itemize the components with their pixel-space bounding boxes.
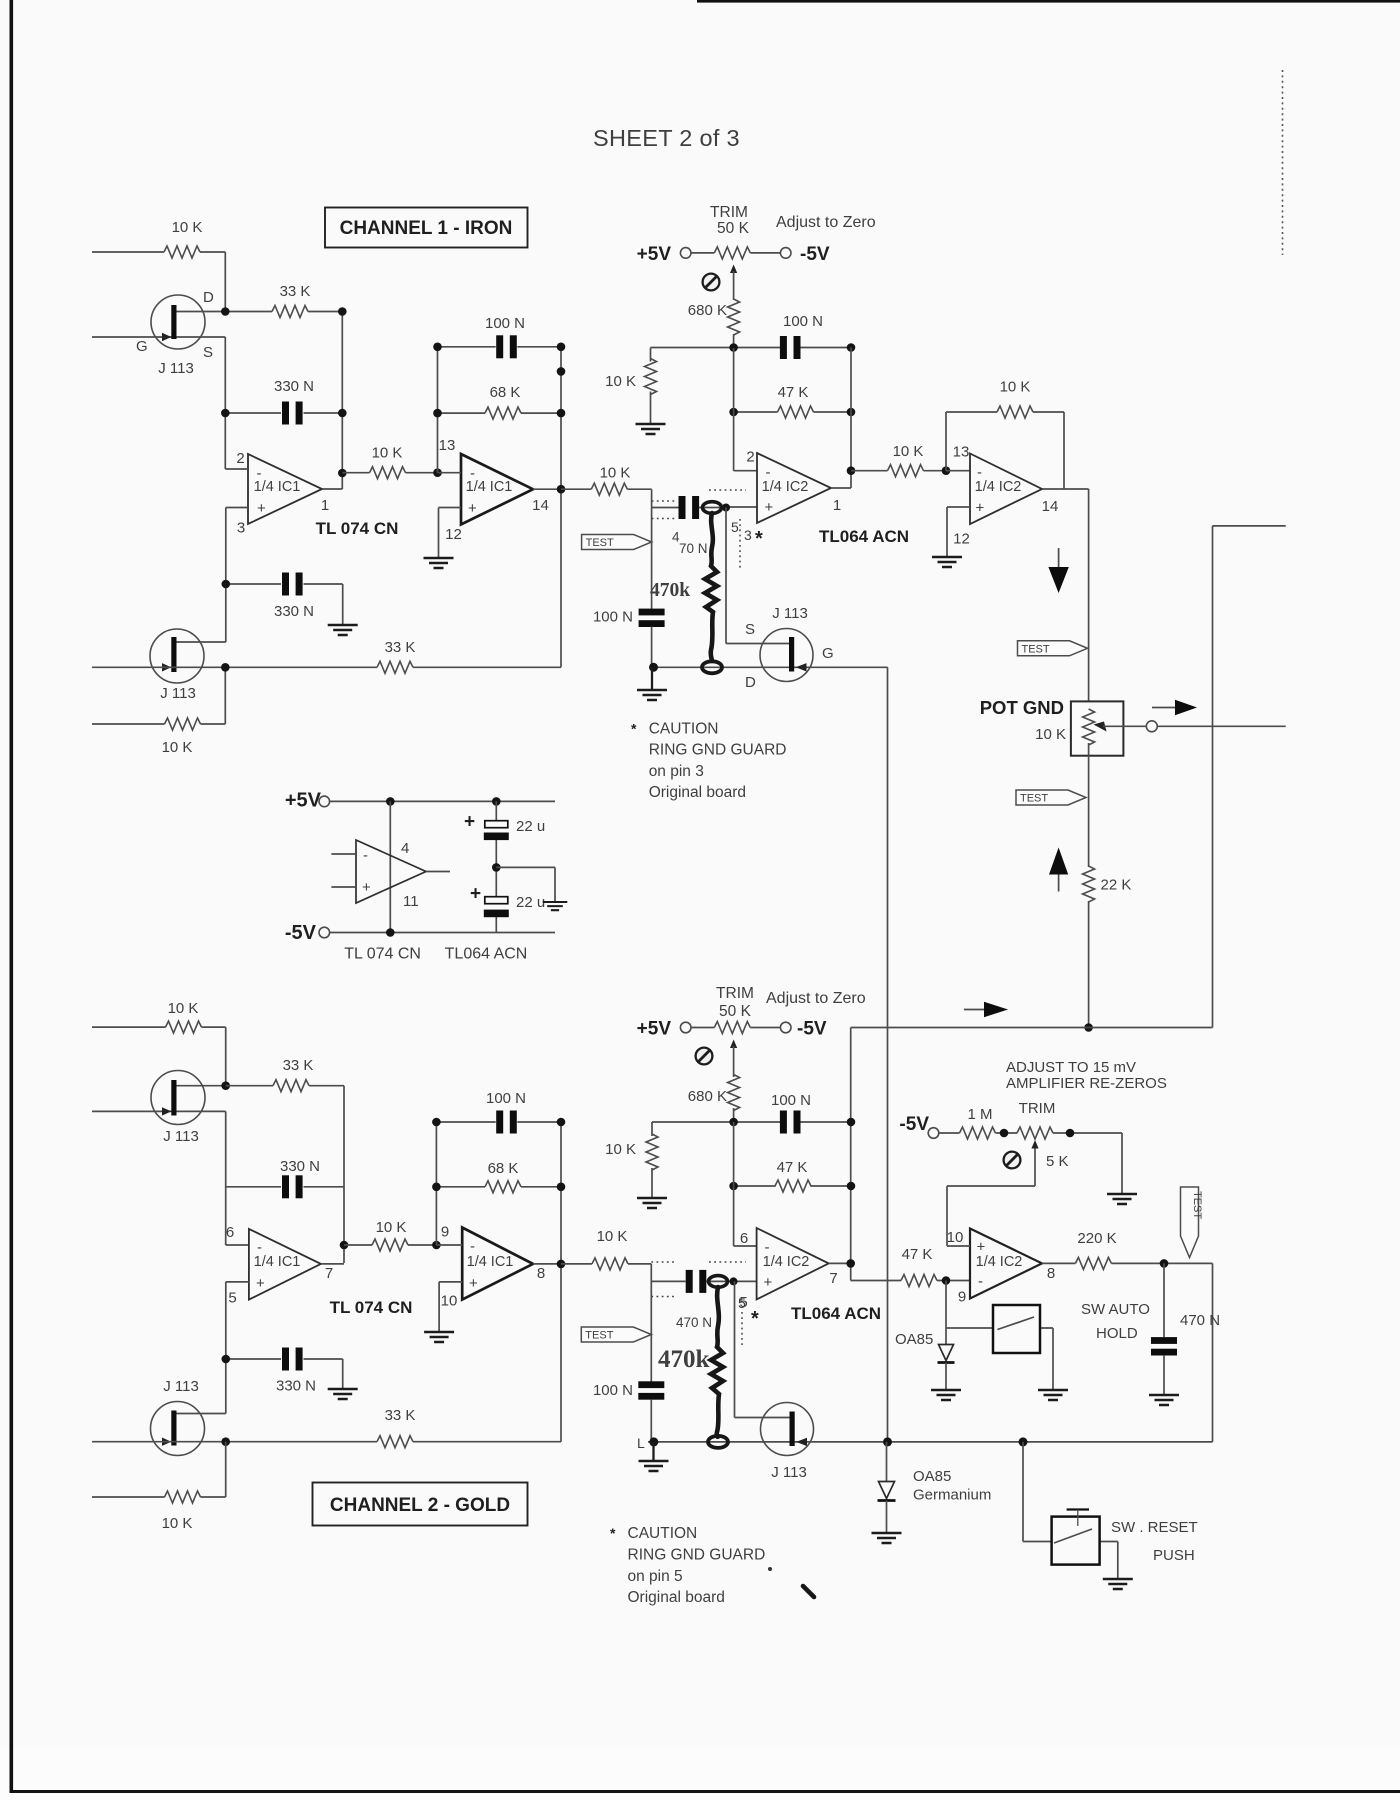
svg-text:47 K: 47 K — [902, 1246, 933, 1263]
svg-text:*: * — [631, 721, 637, 737]
svg-text:1/4 IC1: 1/4 IC1 — [466, 479, 513, 495]
svg-text:+: + — [468, 500, 477, 517]
svg-text:S: S — [745, 621, 755, 638]
svg-text:33 K: 33 K — [385, 1407, 416, 1424]
svg-text:1/4 IC2: 1/4 IC2 — [975, 479, 1022, 495]
svg-text:14: 14 — [532, 497, 549, 514]
svg-text:47 K: 47 K — [777, 1159, 808, 1176]
svg-text:5 K: 5 K — [1046, 1153, 1069, 1170]
svg-text:1/4 IC1: 1/4 IC1 — [254, 1254, 301, 1270]
svg-text:ADJUST TO 15 mV: ADJUST TO 15 mV — [1006, 1059, 1136, 1076]
svg-text:68 K: 68 K — [490, 384, 521, 401]
svg-text:6: 6 — [740, 1230, 748, 1247]
svg-text:50 K: 50 K — [719, 1003, 752, 1020]
svg-text:-: - — [470, 1238, 475, 1255]
svg-text:470k: 470k — [650, 580, 690, 601]
svg-text:3: 3 — [744, 527, 752, 543]
svg-text:2: 2 — [746, 449, 754, 466]
svg-text:470 N: 470 N — [1180, 1312, 1220, 1329]
svg-text:PUSH: PUSH — [1153, 1547, 1195, 1564]
svg-text:47 K: 47 K — [778, 384, 809, 401]
svg-text:+: + — [257, 500, 266, 517]
svg-text:*: * — [610, 1525, 616, 1541]
svg-text:on pin 3: on pin 3 — [649, 763, 704, 780]
svg-text:TL064 ACN: TL064 ACN — [819, 527, 909, 546]
svg-text:Adjust to Zero: Adjust to Zero — [776, 214, 876, 231]
svg-text:3: 3 — [237, 520, 245, 537]
svg-text:10: 10 — [947, 1229, 964, 1246]
svg-text:10 K: 10 K — [605, 1141, 636, 1158]
svg-text:+: + — [362, 879, 371, 896]
svg-text:+: + — [469, 1275, 478, 1292]
svg-text:220 K: 220 K — [1077, 1230, 1116, 1247]
svg-text:10 K: 10 K — [605, 373, 636, 390]
svg-text:9: 9 — [958, 1289, 966, 1306]
svg-text:100 N: 100 N — [593, 1382, 633, 1399]
svg-text:+: + — [764, 1274, 773, 1291]
svg-text:5: 5 — [739, 1294, 747, 1311]
svg-text:100 N: 100 N — [485, 315, 525, 332]
svg-text:13: 13 — [953, 444, 970, 461]
svg-text:100 N: 100 N — [593, 609, 633, 626]
svg-text:TL064 ACN: TL064 ACN — [445, 946, 528, 963]
svg-text:10 K: 10 K — [168, 1000, 199, 1017]
svg-text:7: 7 — [829, 1270, 837, 1287]
svg-text:330 N: 330 N — [280, 1158, 320, 1175]
svg-text:G: G — [136, 338, 148, 355]
svg-text:Adjust to Zero: Adjust to Zero — [766, 990, 866, 1007]
svg-text:+: + — [470, 884, 481, 905]
svg-text:10: 10 — [441, 1293, 458, 1310]
svg-text:22 K: 22 K — [1101, 877, 1132, 894]
svg-text:CAUTION: CAUTION — [628, 1525, 698, 1542]
svg-text:1/4 IC1: 1/4 IC1 — [467, 1254, 514, 1270]
svg-text:+: + — [976, 500, 985, 517]
svg-text:470 N: 470 N — [676, 1315, 712, 1330]
svg-text:+5V: +5V — [285, 790, 322, 812]
svg-text:+5V: +5V — [637, 244, 672, 265]
svg-text:10 K: 10 K — [162, 739, 193, 756]
svg-text:RING GND GUARD: RING GND GUARD — [628, 1547, 766, 1564]
svg-text:2: 2 — [236, 450, 244, 467]
svg-text:12: 12 — [953, 531, 970, 548]
svg-text:TRIM: TRIM — [716, 985, 754, 1002]
svg-text:TRIM: TRIM — [710, 204, 748, 221]
svg-text:S: S — [203, 344, 213, 361]
svg-text:100 N: 100 N — [783, 313, 823, 330]
svg-text:5: 5 — [228, 1290, 236, 1307]
svg-text:68 K: 68 K — [488, 1160, 519, 1177]
svg-text:Original board: Original board — [628, 1589, 725, 1606]
svg-text:33 K: 33 K — [280, 283, 311, 300]
svg-text:+: + — [765, 499, 774, 516]
svg-text:22 u: 22 u — [516, 818, 545, 835]
svg-text:-: - — [978, 1273, 983, 1290]
svg-text:22 u: 22 u — [516, 894, 545, 911]
svg-text:8: 8 — [1047, 1265, 1055, 1282]
svg-text:10 K: 10 K — [597, 1228, 628, 1245]
svg-text:330 N: 330 N — [274, 378, 314, 395]
svg-text:*: * — [751, 1308, 759, 1330]
svg-text:10 K: 10 K — [600, 465, 631, 482]
svg-text:-: - — [363, 847, 368, 864]
svg-text:TL 074 CN: TL 074 CN — [344, 946, 421, 963]
svg-text:-5V: -5V — [899, 1114, 929, 1135]
svg-text:10 K: 10 K — [893, 443, 924, 460]
svg-text:1/4 IC2: 1/4 IC2 — [976, 1254, 1023, 1270]
svg-text:TL064 ACN: TL064 ACN — [791, 1304, 881, 1323]
svg-text:1: 1 — [321, 497, 329, 514]
svg-text:+: + — [464, 812, 475, 833]
svg-text:9: 9 — [441, 1224, 449, 1241]
svg-text:CHANNEL 1 - IRON: CHANNEL 1 - IRON — [340, 218, 513, 239]
svg-text:Original board: Original board — [649, 784, 746, 801]
svg-text:680 K: 680 K — [688, 302, 727, 319]
svg-text:+: + — [256, 1275, 265, 1292]
svg-text:TL 074 CN: TL 074 CN — [330, 1298, 413, 1317]
svg-text:14: 14 — [1042, 498, 1059, 515]
svg-text:13: 13 — [439, 437, 456, 454]
svg-text:POT GND: POT GND — [980, 697, 1064, 718]
svg-text:L: L — [637, 1435, 645, 1451]
svg-text:J 113: J 113 — [163, 1128, 199, 1145]
svg-text:RING GND GUARD: RING GND GUARD — [649, 742, 787, 759]
svg-text:10 K: 10 K — [372, 445, 403, 462]
svg-text:D: D — [745, 674, 756, 691]
svg-text:330 N: 330 N — [274, 603, 314, 620]
svg-text:10 K: 10 K — [172, 219, 203, 236]
svg-text:+: + — [977, 1239, 986, 1256]
svg-text:TEST: TEST — [1191, 1191, 1203, 1219]
svg-text:-5V: -5V — [797, 1019, 827, 1040]
svg-text:1/4 IC2: 1/4 IC2 — [763, 1254, 810, 1270]
svg-text:J 113: J 113 — [772, 605, 808, 622]
svg-text:100 N: 100 N — [771, 1092, 811, 1109]
svg-text:12: 12 — [445, 526, 462, 543]
svg-text:6: 6 — [226, 1224, 234, 1241]
svg-text:10 K: 10 K — [162, 1515, 193, 1532]
svg-text:-5V: -5V — [285, 922, 317, 944]
svg-text:OA85: OA85 — [895, 1331, 933, 1348]
svg-text:5: 5 — [731, 519, 739, 535]
svg-text:-5V: -5V — [800, 244, 830, 265]
svg-text:680 K: 680 K — [688, 1088, 727, 1105]
svg-text:AMPLIFIER RE-ZEROS: AMPLIFIER RE-ZEROS — [1006, 1075, 1167, 1092]
svg-text:TL 074 CN: TL 074 CN — [316, 519, 399, 538]
svg-text:1/4 IC2: 1/4 IC2 — [762, 479, 809, 495]
svg-text:470k: 470k — [658, 1346, 710, 1373]
svg-text:CHANNEL 2 - GOLD: CHANNEL 2 - GOLD — [330, 1495, 510, 1516]
svg-text:33 K: 33 K — [385, 639, 416, 656]
svg-text:11: 11 — [403, 893, 419, 910]
svg-text:OA85: OA85 — [913, 1468, 951, 1485]
svg-text:1/4 IC1: 1/4 IC1 — [254, 479, 301, 495]
svg-text:HOLD: HOLD — [1096, 1325, 1138, 1342]
svg-text:10 K: 10 K — [376, 1219, 407, 1236]
svg-text:SW AUTO: SW AUTO — [1081, 1301, 1150, 1318]
svg-text:10 K: 10 K — [1000, 379, 1031, 396]
svg-text:330 N: 330 N — [276, 1378, 316, 1395]
svg-text:*: * — [755, 528, 763, 550]
svg-text:1: 1 — [833, 497, 841, 514]
svg-text:70 N: 70 N — [679, 541, 708, 556]
svg-text:J 113: J 113 — [158, 360, 194, 377]
svg-text:50 K: 50 K — [717, 220, 750, 237]
svg-text:G: G — [822, 645, 834, 662]
svg-text:1 M: 1 M — [967, 1106, 992, 1123]
svg-text:33 K: 33 K — [283, 1057, 314, 1074]
svg-text:D: D — [203, 289, 214, 306]
svg-text:J 113: J 113 — [771, 1464, 807, 1481]
svg-text:100 N: 100 N — [486, 1090, 526, 1107]
svg-text:on pin 5: on pin 5 — [628, 1568, 683, 1585]
svg-text:4: 4 — [401, 840, 409, 857]
svg-text:J 113: J 113 — [163, 1378, 199, 1395]
svg-text:J 113: J 113 — [160, 685, 196, 702]
svg-text:7: 7 — [325, 1265, 333, 1282]
svg-text:+5V: +5V — [637, 1019, 672, 1040]
svg-text:8: 8 — [537, 1265, 545, 1282]
svg-text:SHEET 2 of 3: SHEET 2 of 3 — [593, 125, 740, 151]
svg-text:Germanium: Germanium — [913, 1487, 991, 1504]
svg-text:10 K: 10 K — [1035, 726, 1066, 743]
svg-text:CAUTION: CAUTION — [649, 721, 719, 738]
svg-text:SW . RESET: SW . RESET — [1111, 1519, 1198, 1536]
svg-text:TRIM: TRIM — [1019, 1100, 1056, 1117]
